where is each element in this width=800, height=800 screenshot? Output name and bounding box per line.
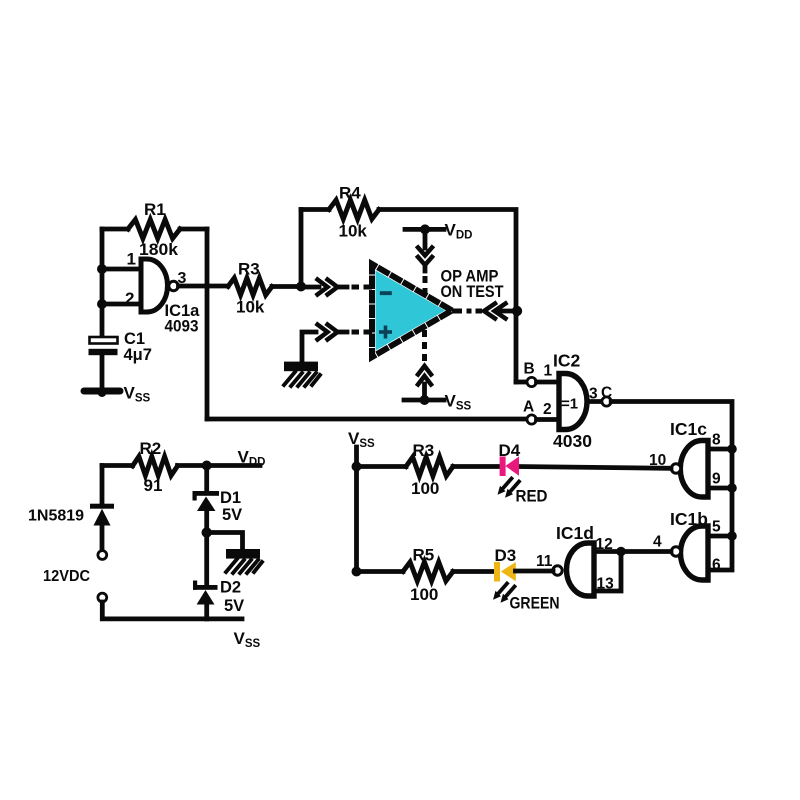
wire B stub [516, 380, 527, 385]
resistor R5 100 [403, 562, 453, 581]
wire D2 to bottom rail [204, 605, 209, 619]
svg-text:8: 8 [712, 432, 721, 449]
svg-text:R1: R1 [144, 200, 166, 219]
ground VSS bar (oscillator) [84, 388, 120, 395]
plus sign in op-amp [379, 326, 392, 339]
wire pin8 stub [710, 447, 732, 452]
pin 4 bubble IC1b [671, 547, 680, 556]
pin 3 output bubble of IC1a [169, 281, 178, 290]
junction D1/D2/ground [202, 527, 212, 537]
svg-text:11: 11 [536, 553, 553, 570]
wire R4 rail left [301, 207, 329, 212]
ground (op-amp plus input) bar [284, 362, 318, 372]
svg-text:3: 3 [589, 386, 598, 403]
wire pin1 stub [102, 267, 141, 272]
svg-text:R5: R5 [413, 546, 435, 565]
svg-text:VSS: VSS [234, 629, 261, 650]
resistor R4 10k [329, 200, 379, 219]
arrow chevrons minus input [318, 280, 328, 295]
gate IC1a (4093 NAND) [141, 259, 168, 312]
wire right vertical from R1 down to node A row [205, 229, 210, 419]
svg-text:4μ7: 4μ7 [124, 346, 152, 364]
svg-text:GREEN: GREEN [510, 595, 560, 613]
LED D3 emission arrows [493, 584, 515, 603]
svg-text:100: 100 [411, 479, 439, 498]
resistor R1 [128, 220, 180, 239]
svg-text:RED: RED [516, 488, 548, 506]
svg-text:A: A [523, 399, 534, 416]
wire R4 left vertical [299, 210, 304, 287]
wire row2 to R5 [357, 569, 404, 574]
svg-text:10k: 10k [236, 298, 265, 317]
wire output solid to rail [499, 309, 516, 314]
terminal 12VDC plus [98, 551, 107, 560]
junction led row2 [352, 567, 362, 577]
wire pin5 stub [710, 534, 732, 539]
wire R1 top rail left segment [102, 227, 128, 232]
svg-text:C: C [601, 385, 612, 402]
svg-text:180k: 180k [139, 240, 179, 259]
junction R3/R4/minus-input node [296, 282, 306, 292]
svg-text:VSS: VSS [124, 384, 151, 405]
arrow chevrons VSS (up) [418, 366, 431, 375]
junction led row1 [352, 462, 362, 472]
pin 10 bubble IC1c [671, 464, 680, 473]
node B terminal [527, 377, 536, 386]
resistor R3 100 [406, 457, 453, 476]
diode 1N5819 bar [90, 504, 114, 509]
wire VSS stub [422, 384, 427, 400]
LED D4 (red) cathode bar [500, 457, 506, 477]
gate IC2 (4030 XOR) [559, 374, 587, 430]
wire plus dash-dot [338, 330, 347, 335]
wire pin3 output to R3 [179, 284, 229, 289]
wire IC2 pin2 [537, 417, 560, 422]
svg-text:4030: 4030 [553, 431, 592, 451]
gate IC1d (mirrored NAND) [567, 543, 595, 596]
svg-text:10k: 10k [339, 222, 368, 241]
wire VSS dash below triangle [422, 330, 427, 337]
ground (psu) bar [226, 549, 260, 559]
wire IC2 pin1 [537, 380, 560, 385]
wire minus dash-dot [338, 285, 347, 290]
junction output/feedback [512, 306, 522, 316]
LED D4 triangle [505, 457, 519, 476]
svg-text:ON TEST: ON TEST [441, 283, 504, 301]
arrow chevrons VDD (down) [418, 248, 432, 256]
svg-text:1: 1 [127, 250, 136, 269]
svg-text:1: 1 [544, 363, 553, 380]
svg-text:IC1b: IC1b [670, 509, 708, 529]
LED D3 triangle [501, 562, 516, 581]
wire D1 to mid junction [204, 511, 209, 586]
op-amp U1 dashed triangle outline [372, 264, 452, 357]
wire minus-input solid [301, 285, 319, 290]
svg-text:D3: D3 [495, 546, 517, 565]
svg-text:12: 12 [596, 536, 613, 553]
wire left vertical (IC1a input rail) [100, 229, 105, 338]
wire diode to terminal [100, 526, 105, 551]
svg-text:5: 5 [712, 519, 721, 536]
svg-text:IC1d: IC1d [556, 523, 594, 543]
arrow chevrons output (left) [484, 304, 495, 319]
node A wire (long horizontal) [207, 417, 527, 422]
svg-text:R3: R3 [413, 441, 435, 460]
svg-text:91: 91 [144, 476, 163, 495]
node A terminal [527, 415, 536, 424]
svg-text:IC1c: IC1c [670, 419, 707, 439]
svg-text:5V: 5V [224, 597, 244, 615]
svg-text:IC2: IC2 [553, 351, 581, 371]
wire output dash-dot [452, 309, 462, 314]
svg-text:VSS: VSS [445, 392, 472, 413]
wire pin9 stub [710, 486, 732, 491]
wire pin10 to D4 [519, 467, 672, 469]
junction pin12/pin4 [616, 547, 626, 557]
gate IC1c (mirrored NAND) [680, 441, 708, 498]
wire C1 to ground [100, 355, 105, 389]
svg-text:VDD: VDD [445, 221, 473, 242]
svg-text:1N5819: 1N5819 [28, 508, 84, 525]
svg-text:2: 2 [543, 401, 552, 418]
wire plus-input from ground [302, 332, 316, 362]
wire pin4 to pin12 junction [621, 549, 671, 554]
svg-text:D1: D1 [220, 489, 241, 507]
svg-text:9: 9 [712, 471, 721, 488]
LED D4 emission arrows [498, 479, 520, 498]
capacitor C1 bottom plate [89, 349, 118, 355]
wire VSS led tick [354, 447, 359, 572]
wire R3 to junction [272, 284, 301, 289]
resistor R2 91 [133, 457, 178, 476]
svg-text:R3: R3 [238, 260, 260, 279]
svg-text:=1: =1 [561, 396, 578, 413]
svg-text:6: 6 [712, 557, 721, 574]
wire VDD dash to triangle [423, 276, 428, 283]
wire R2 to VDD label [178, 463, 261, 468]
zener D1 triangle [197, 497, 216, 512]
op-amp U1 triangle fill [376, 271, 446, 351]
node C terminal [602, 397, 611, 406]
svg-text:10: 10 [649, 452, 666, 469]
ground hatching [284, 372, 320, 386]
terminal 12VDC minus [98, 593, 107, 602]
junction pin2 [97, 299, 107, 309]
ground psu hatching [226, 559, 262, 573]
svg-text:3: 3 [178, 270, 187, 287]
wire terminal to bottom rail [102, 602, 242, 619]
junction pin1 [97, 264, 107, 274]
svg-text:2: 2 [125, 289, 134, 308]
LED D3 (green) cathode bar [494, 562, 500, 582]
svg-text:12VDC: 12VDC [43, 568, 90, 585]
svg-text:D2: D2 [220, 579, 241, 597]
wire pin13 stub and tie [594, 552, 621, 592]
svg-text:VSS: VSS [348, 429, 375, 450]
minus sign in op-amp [380, 291, 392, 295]
pin 11 output bubble IC1d [553, 566, 562, 575]
wire R1 top rail right segment [180, 227, 207, 232]
svg-text:R2: R2 [140, 439, 162, 458]
svg-text:D4: D4 [499, 441, 521, 460]
svg-text:VDD: VDD [238, 448, 266, 469]
junction VDD/D1 [202, 461, 212, 471]
wire R5 to D3 [453, 569, 494, 574]
wire C to right rail [611, 402, 732, 571]
wire mid junction to ground [207, 533, 243, 550]
diode 1N5819 triangle [94, 509, 111, 526]
wire IC2 output [587, 399, 602, 404]
zener D2 triangle [197, 590, 215, 605]
VSS bar (op-amp supply) [404, 398, 444, 403]
wire R4 rail right to IC2 feed vertical [379, 210, 516, 383]
zener D2 bar [193, 585, 218, 590]
svg-text:13: 13 [597, 576, 615, 593]
gate IC1b (mirrored NAND) [680, 526, 708, 580]
wire D3 to pin11 [516, 569, 554, 574]
svg-text:100: 100 [410, 585, 438, 604]
svg-text:4: 4 [653, 534, 662, 551]
wire pin12 stub [594, 549, 621, 554]
wire VDD junction down to D1 [204, 466, 209, 491]
svg-text:R4: R4 [339, 184, 361, 203]
arrow chevrons plus input [318, 325, 328, 340]
svg-text:5V: 5V [222, 506, 242, 524]
VDD bar (op-amp supply) [405, 227, 444, 232]
wire pin2 stub [102, 302, 141, 307]
wire VDD down stub [423, 229, 428, 248]
wire power VDD rail [102, 463, 133, 468]
resistor R3 10k [228, 278, 272, 295]
wire left psu leg top [100, 466, 105, 505]
wire R3 to D4 [453, 464, 500, 469]
svg-text:4093: 4093 [165, 318, 199, 336]
zener D1 bar [193, 491, 220, 496]
capacitor C1 top plate [90, 337, 118, 344]
wire row1 to R3 [357, 464, 407, 469]
svg-text:B: B [524, 361, 535, 378]
